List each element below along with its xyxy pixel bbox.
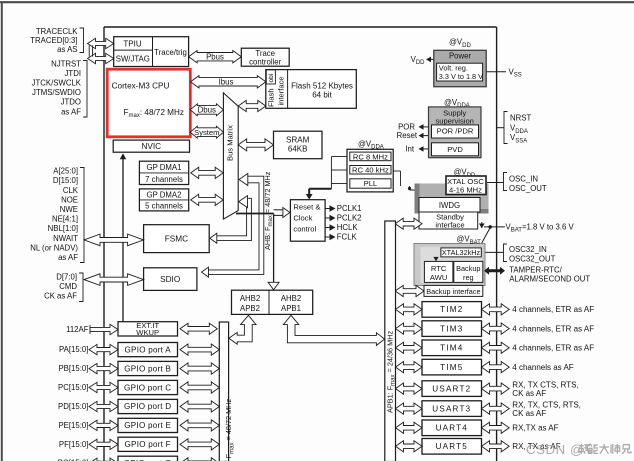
svg-text:reg: reg	[463, 273, 474, 282]
svg-text:D[15:0]: D[15:0]	[53, 176, 78, 185]
svg-text:Reset &: Reset &	[293, 202, 320, 211]
svg-text:XTAL32kHz: XTAL32kHz	[442, 248, 481, 257]
svg-text:OSC32_IN: OSC32_IN	[509, 245, 547, 254]
svg-text:GP DMA2: GP DMA2	[147, 190, 182, 199]
svg-text:NOE: NOE	[61, 195, 78, 204]
svg-text:CMD: CMD	[59, 282, 77, 291]
svg-text:D[7:0]: D[7:0]	[56, 272, 77, 281]
svg-text:3.3 V to 1.8 V: 3.3 V to 1.8 V	[439, 72, 483, 81]
svg-text:CLK: CLK	[63, 186, 79, 195]
svg-text:PE[15:0]: PE[15:0]	[58, 421, 88, 430]
svg-text:CSDN @: CSDN @	[526, 442, 584, 457]
svg-text:NWE: NWE	[60, 205, 78, 214]
svg-text:Backup interface: Backup interface	[426, 287, 480, 296]
svg-text:APB1: APB1	[281, 304, 301, 313]
svg-text:OSC32_OUT: OSC32_OUT	[509, 254, 556, 263]
svg-text:TIM2: TIM2	[440, 305, 463, 314]
svg-text:Backup: Backup	[456, 264, 480, 273]
svg-text:CK as AF: CK as AF	[512, 389, 546, 398]
svg-text:USART3: USART3	[432, 404, 471, 413]
svg-text:GPIO port A: GPIO port A	[125, 345, 172, 354]
svg-text:NE[4:1]: NE[4:1]	[52, 215, 78, 224]
svg-text:Clock: Clock	[293, 213, 312, 222]
svg-text:Trace/trig: Trace/trig	[154, 48, 187, 57]
svg-text:Reset: Reset	[397, 131, 418, 140]
svg-text:Dbus: Dbus	[198, 106, 216, 115]
svg-text:NWAIT: NWAIT	[53, 234, 78, 243]
svg-text:4 channels as AF: 4 channels as AF	[512, 363, 573, 372]
svg-text:TAMPER-RTC/: TAMPER-RTC/	[509, 265, 562, 274]
svg-text:PA[15:0]: PA[15:0]	[59, 345, 88, 354]
svg-text:Flash: Flash	[267, 88, 276, 107]
svg-text:interface: interface	[277, 76, 286, 105]
svg-text:ALARM/SECOND OUT: ALARM/SECOND OUT	[509, 275, 590, 284]
svg-text:POR: POR	[398, 123, 415, 132]
svg-text:GPIO port E: GPIO port E	[124, 421, 171, 430]
svg-text:FCLK: FCLK	[337, 233, 358, 242]
svg-text:JTCK/SWCLK: JTCK/SWCLK	[32, 79, 82, 88]
svg-text:control: control	[293, 224, 316, 233]
svg-text:RTC: RTC	[431, 264, 447, 273]
svg-text:PD[15:0]: PD[15:0]	[58, 402, 88, 411]
svg-text:as AF: as AF	[61, 107, 81, 116]
svg-text:NL (or NADV): NL (or NADV)	[30, 243, 78, 252]
svg-text:obl: obl	[268, 73, 275, 82]
svg-text:NBL[1:0]: NBL[1:0]	[48, 224, 78, 233]
svg-text:TIM3: TIM3	[440, 324, 463, 333]
svg-text:CK as AF: CK as AF	[512, 409, 546, 418]
svg-text:AHB2: AHB2	[240, 294, 260, 303]
svg-text:CK as AF: CK as AF	[44, 292, 77, 301]
svg-text:TIM5: TIM5	[440, 363, 463, 372]
svg-text:PB[15:0]: PB[15:0]	[58, 364, 88, 373]
svg-text:Power: Power	[449, 51, 472, 60]
svg-text:NRST: NRST	[510, 113, 531, 122]
svg-text:FSMC: FSMC	[165, 234, 188, 243]
svg-text:NVIC: NVIC	[142, 142, 162, 151]
svg-text:PVD: PVD	[447, 145, 463, 154]
svg-text:PF[15:0]: PF[15:0]	[59, 440, 88, 449]
svg-text:RC 40 kHz: RC 40 kHz	[352, 166, 389, 175]
svg-text:A[25:0]: A[25:0]	[53, 167, 78, 176]
svg-text:PCLK2: PCLK2	[337, 214, 362, 223]
svg-text:OSC_OUT: OSC_OUT	[509, 184, 547, 193]
svg-text:IWDG: IWDG	[439, 201, 460, 210]
svg-text:GP DMA1: GP DMA1	[147, 163, 182, 172]
svg-text:RC 8 MHz: RC 8 MHz	[353, 152, 388, 161]
svg-text:PLL: PLL	[364, 179, 378, 188]
svg-text:JTMS/SWDIO: JTMS/SWDIO	[32, 88, 81, 97]
svg-text:SDIO: SDIO	[160, 275, 180, 284]
svg-text:4 channels, ETR as AF: 4 channels, ETR as AF	[512, 324, 594, 333]
svg-text:5 channels: 5 channels	[145, 201, 183, 210]
svg-text:64 bit: 64 bit	[312, 91, 332, 100]
svg-text:7 channels: 7 channels	[145, 175, 183, 184]
svg-text:Flash 512 Kbytes: Flash 512 Kbytes	[291, 81, 353, 90]
svg-text:POR /PDR: POR /PDR	[437, 127, 474, 136]
svg-text:OSC_IN: OSC_IN	[509, 174, 538, 183]
svg-text:Bus Matrix: Bus Matrix	[226, 125, 235, 161]
svg-text:controller: controller	[249, 57, 281, 66]
svg-text:System: System	[194, 128, 219, 137]
svg-text:TPIU: TPIU	[123, 39, 141, 48]
svg-text:Int: Int	[405, 145, 415, 154]
svg-text:JTDI: JTDI	[65, 69, 81, 78]
svg-text:JTDO: JTDO	[61, 98, 81, 107]
svg-text:112AF: 112AF	[66, 325, 89, 334]
svg-text:SRAM: SRAM	[286, 135, 309, 144]
svg-text:HCLK: HCLK	[337, 223, 359, 232]
svg-text:APB2: APB2	[240, 304, 260, 313]
svg-text:Ibus: Ibus	[219, 78, 234, 87]
svg-text:WKUP: WKUP	[136, 328, 159, 337]
svg-text:PC[15:0]: PC[15:0]	[58, 383, 88, 392]
svg-text:supervision: supervision	[435, 117, 473, 126]
svg-text:RX,TX as AF: RX,TX as AF	[512, 424, 558, 433]
svg-text:TRACED[0:3]: TRACED[0:3]	[30, 36, 77, 45]
svg-text:AWU: AWU	[430, 273, 447, 282]
svg-text:4 channels, ETR as AF: 4 channels, ETR as AF	[512, 344, 594, 353]
svg-text:UART5: UART5	[436, 442, 468, 451]
svg-text:Cortex-M3 CPU: Cortex-M3 CPU	[112, 81, 170, 90]
svg-text:4 channels, ETR as AF: 4 channels, ETR as AF	[512, 305, 594, 314]
svg-text:Pbus: Pbus	[206, 53, 224, 62]
svg-text:interface: interface	[435, 220, 464, 229]
svg-text:GPIO port F: GPIO port F	[125, 440, 171, 449]
svg-text:64KB: 64KB	[288, 145, 308, 154]
svg-text:TRACECLK: TRACECLK	[36, 27, 78, 36]
svg-text:4-16 MHz: 4-16 MHz	[449, 186, 482, 195]
svg-text:UART4: UART4	[436, 424, 468, 433]
svg-text:GPIO port D: GPIO port D	[124, 402, 171, 411]
svg-text:GPIO port C: GPIO port C	[124, 383, 171, 392]
svg-text:AHB2: AHB2	[281, 294, 301, 303]
svg-text:USART2: USART2	[432, 384, 471, 393]
svg-text:SW/JTAG: SW/JTAG	[116, 55, 150, 64]
svg-text:as AS: as AS	[57, 45, 77, 54]
svg-text:as AF: as AF	[58, 253, 78, 262]
svg-text:PCLK1: PCLK1	[337, 204, 362, 213]
svg-text:NJTRST: NJTRST	[51, 59, 81, 68]
svg-text:GPIO port B: GPIO port B	[124, 364, 171, 373]
svg-text:TIM4: TIM4	[440, 344, 463, 353]
